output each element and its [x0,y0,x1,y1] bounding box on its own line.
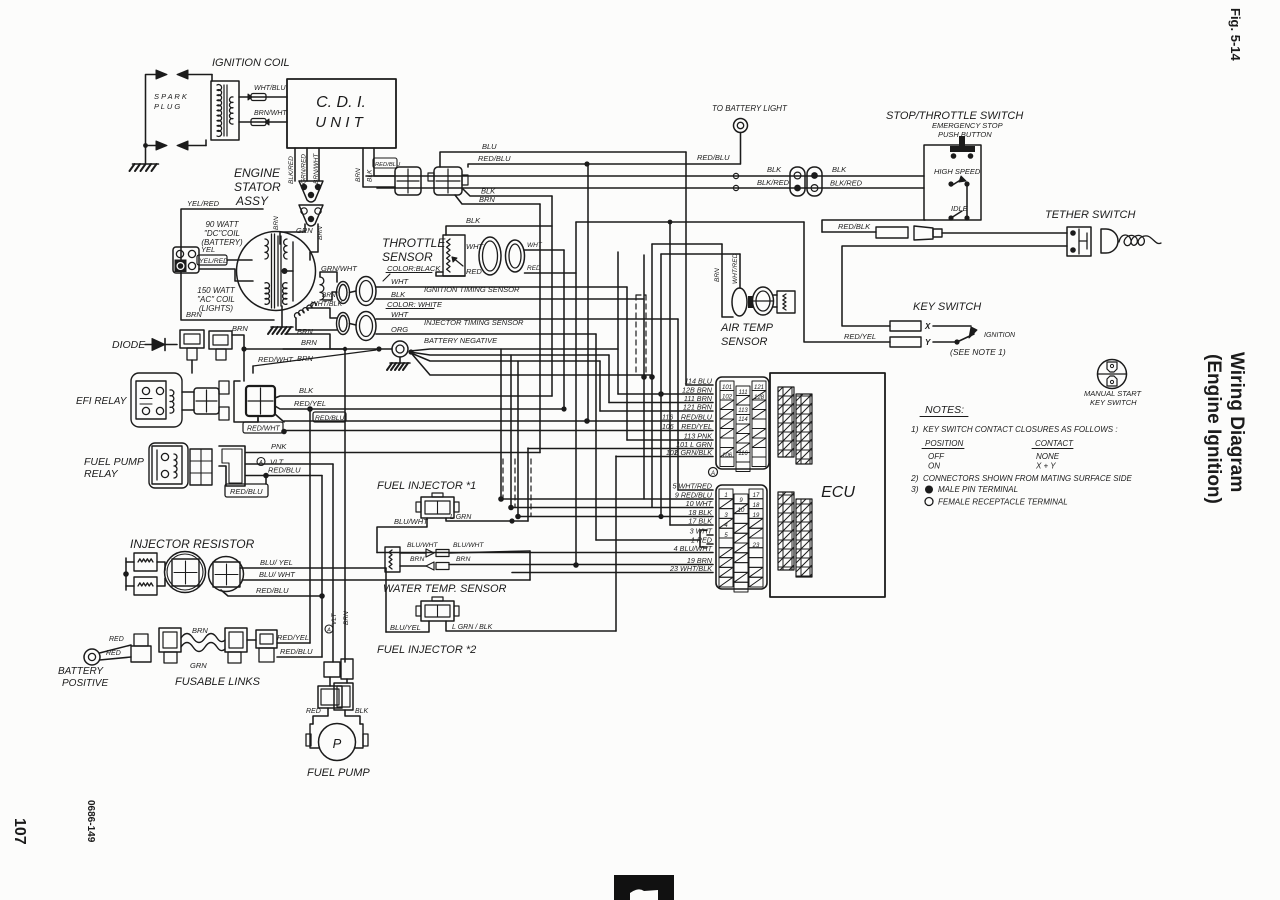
svg-text:AIR TEMP: AIR TEMP [720,322,774,334]
fuel pump relay coil [174,454,177,478]
svg-text:KEY SWITCH CONTACT CLOSURES: KEY SWITCH CONTACT CLOSURES AS FOLLOWS : [923,425,1118,434]
svg-text:BRN: BRN [456,556,470,563]
svg-text:102: 102 [666,450,678,457]
svg-text:RED/BLU: RED/BLU [280,647,313,656]
wire PNK [246,452,540,454]
throttle sensor pot box [443,235,465,276]
wire plug to tether switch [942,232,1067,234]
wire BRN riser x345 [344,349,346,662]
node pin junctions [658,391,664,397]
wire CDI BRN down right [363,148,395,187]
connector pill ignition pickup [337,282,350,304]
circled A symbol [709,468,718,477]
svg-text:TETHER SWITCH: TETHER SWITCH [1045,209,1135,221]
pickup coil WHT/BLK winding diagonal [293,301,316,318]
svg-text:0686-149: 0686-149 [85,800,96,843]
wire vertical x686 BLU [685,152,687,385]
connector tapered plug [914,226,933,240]
svg-text:S P A R K: S P A R K [154,92,188,101]
tether switch box [1067,227,1091,256]
wire WHT injector timing [376,318,678,320]
svg-text:RED: RED [306,708,321,715]
svg-text:OFF: OFF [928,452,945,461]
svg-text:FUEL INJECTOR *2: FUEL INJECTOR *2 [377,644,476,656]
wire RED/BLU EFI to pin116 [275,414,284,422]
svg-text:114 BLU: 114 BLU [685,377,713,386]
svg-text:RED/BLU: RED/BLU [681,413,713,422]
wire RED/YEL from EFI [275,406,564,409]
svg-text:P L U G: P L U G [154,102,180,111]
node fan origin [408,349,413,354]
wire ECU pin 18 BLK [518,516,713,518]
svg-text:BRN: BRN [273,216,280,230]
connector BRN/WHT inline [251,119,266,126]
wire vertical x670 [669,222,671,525]
svg-text:BRN: BRN [192,626,208,635]
svg-text:GRN: GRN [190,661,207,670]
svg-text:17: 17 [753,493,760,499]
svg-text:COLOR: WHITE: COLOR: WHITE [387,300,443,309]
wire ECU pin 9 RED/BLU [501,498,713,500]
svg-text:BLK: BLK [299,386,314,395]
svg-text:RED/WHT: RED/WHT [258,355,294,364]
wire RED/BLU branch down [265,476,267,485]
fuel pump relay box [152,446,182,484]
water temp connector arrows [400,552,426,554]
throttle connector pill 1 [479,237,501,275]
svg-text:U N I T: U N I T [315,114,364,131]
svg-text:BLU/ YEL: BLU/ YEL [260,558,293,567]
wire ECU pin 3 WHT [707,534,713,536]
svg-text:"DC"COIL: "DC"COIL [204,229,240,238]
wire CDI BLK down right [374,148,395,176]
key switch blade [957,334,974,342]
svg-text:BLU/YEL: BLU/YEL [390,623,421,632]
EFI relay coil [170,390,174,413]
wire RED/YEL riser [309,409,311,643]
wire fan line 3 [411,353,600,361]
wire fan line 2 [410,352,609,355]
fuel pump connector G [324,662,340,677]
wire BLK long to stop switch [366,175,924,177]
connector 4-circle stator [173,247,199,273]
svg-text:BLK: BLK [466,216,481,225]
wire injector1 BLU/WHT [377,518,427,553]
svg-text:RED/WHT: RED/WHT [247,426,280,433]
stator right winding bottom [283,283,287,305]
svg-text:106: 106 [662,424,674,431]
label RED/BLU boxed EFI [313,412,346,422]
wire RED/BLU bottom [277,656,322,658]
wire diode B to vertical [232,335,244,381]
water temp sensor box [385,547,400,572]
node resistor left [123,571,129,577]
throttle pot zigzag [447,239,450,272]
svg-text:INJECTOR RESISTOR: INJECTOR RESISTOR [130,537,255,551]
node RED/BLU branch [263,473,269,479]
svg-text:BRN/WHT: BRN/WHT [313,153,320,184]
wire BLK throttle top [446,226,552,235]
svg-text:BRN: BRN [322,292,336,299]
key switch X terminal [890,321,921,331]
wire switch internal [966,186,968,216]
wire spark plug left vertical [146,75,157,165]
svg-text:18: 18 [753,503,760,509]
svg-text:PNK: PNK [271,442,287,451]
wire air temp BRN horizontal [652,243,722,245]
wire VLT [246,463,333,465]
svg-text:17 BLK: 17 BLK [688,517,713,526]
node dashed ends [641,374,647,380]
svg-text:BRN: BRN [301,338,317,347]
wire ECU pin 12B BRN [618,393,713,395]
ignition coil T1 box [211,81,239,140]
svg-text:BLU/ WHT: BLU/ WHT [259,570,296,579]
svg-text:POSITION: POSITION [925,439,963,448]
svg-text:IGNITION: IGNITION [984,332,1016,339]
wire ORG injector timing [376,333,596,335]
svg-text:BRN: BRN [410,556,424,563]
wire YEL to stator [227,259,252,261]
svg-text:5 WHT/RED: 5 WHT/RED [672,482,712,491]
wire tether lower to key switch [842,246,1067,326]
wire water BLU/WHT [449,551,530,553]
svg-text:L GRN/BLK: L GRN/BLK [675,448,714,457]
label RED/BLU boxed near plug [373,158,397,168]
svg-text:MANUAL START: MANUAL START [1084,389,1143,398]
svg-text:L GRN / BLK: L GRN / BLK [452,624,493,631]
wire BLU/YEL riser x386 [385,568,387,632]
label RED/BLU boxed lower [225,484,268,497]
svg-text:KEY SWITCH: KEY SWITCH [913,301,981,313]
label RED/WHT boxed [243,422,283,433]
spark plug gap symbol top [156,70,167,79]
svg-text:KEY SWITCH: KEY SWITCH [1090,398,1137,407]
svg-text:YEL/RED: YEL/RED [187,199,220,208]
svg-text:128: 128 [754,395,765,401]
svg-text:RED/YEL: RED/YEL [277,633,309,642]
EFI relay box [136,381,166,419]
svg-text:BLK: BLK [355,708,369,715]
wire injector2 BLU/YEL [386,621,429,632]
connector pill pair on BLK lines [790,167,805,196]
svg-text:NOTES:: NOTES: [925,404,964,416]
wire vertical x501 [500,349,502,499]
wire BRN bottom from stator to V345 [283,348,345,350]
svg-text:150 WATT: 150 WATT [197,286,236,295]
svg-text:NONE: NONE [1036,452,1060,461]
wire pills to ovals [350,291,357,293]
svg-text:10: 10 [738,508,745,514]
svg-text:RED/YEL: RED/YEL [681,422,712,431]
node BRN junctions [241,346,246,351]
wire BLU [440,152,686,167]
svg-text:ECU: ECU [821,484,855,501]
wire ECU pin 111 BRN [609,402,713,404]
wire vertical x552 BLK [551,196,553,396]
wire vertical x609 bend [608,355,610,403]
wire triangle right BRN [310,224,318,260]
svg-text:STATOR: STATOR [234,180,281,194]
resistor box 2 [134,577,157,595]
battery connector [134,634,148,646]
wire RED/YEL bottom [277,642,310,644]
ignition coil primary winding [229,97,233,124]
svg-text:BLU/WHT: BLU/WHT [394,517,429,526]
manual start key switch symbol [1098,360,1127,389]
wire RED/BLU resistor [221,590,322,596]
wire injector2 L GRN/BLK [446,621,616,631]
connector WHT/BLU inline [251,94,266,101]
wire WHT ignition timing [376,286,627,288]
wire BLK from connector B [462,188,552,196]
key switch Y terminal [890,337,921,347]
ECU internal connector lower [778,492,794,570]
wire pump leads [313,708,328,724]
wire throttle box bottom [436,272,465,276]
wire y222 from center to key switch drop [576,221,804,223]
wire relay to connector [182,391,194,393]
svg-text:Wiring Diagram: Wiring Diagram [1226,352,1247,492]
wire vertical x618 bend [617,252,619,394]
svg-text:RELAY: RELAY [84,468,119,480]
bottom black box [614,875,674,900]
throttle pot wiper arrow [452,257,463,266]
svg-text:ENGINE: ENGINE [234,166,281,180]
fuel pump relay contacts [161,453,168,460]
wire coil to CDI BRN/WHT [239,121,287,123]
terminal circles on BLK pair [733,173,738,178]
wire vertical x678 WHT [677,319,679,490]
wire ECU pin 5 WHT/RED [678,489,713,491]
wire CDI BRN/WHT down [318,148,320,181]
svg-text:1: 1 [724,493,727,499]
wire ECU pin 17 BLK [670,524,713,526]
svg-text:RED/BLU: RED/BLU [478,154,511,163]
connector 4-pin square plug B [434,167,462,195]
wire G to H [329,677,331,686]
svg-text:19: 19 [753,513,760,519]
svg-text:BRN: BRN [714,268,721,282]
svg-text:121 BRN: 121 BRN [683,403,713,412]
wire vertical x616 L GRN/BLK riser [615,456,617,631]
svg-text:116: 116 [662,415,673,422]
stator left winding top [265,239,268,259]
wire ECU pin 1 RED [707,543,713,545]
svg-text:BLK/RED: BLK/RED [757,178,790,187]
wire BLU/YEL [240,567,386,569]
wire RED/BLU riser x322 [321,476,323,658]
svg-text:YEL: YEL [201,245,215,254]
ECU harness connector lower block [716,485,767,589]
wire BLK from EFI [275,396,552,398]
svg-text:BRN: BRN [317,226,324,240]
svg-text:SENSOR: SENSOR [721,336,768,348]
wire ECU pin 101 L GRN [528,448,713,450]
wire ECU pin L GRN/BLK [616,456,713,458]
connector diode B [209,331,232,349]
wire ECU pin 121 BRN [600,410,713,412]
svg-text:A: A [258,460,263,466]
svg-text:BLK/RED: BLK/RED [288,156,295,184]
svg-text:(Engine Ignition): (Engine Ignition) [1203,354,1224,504]
ground spark plug [133,163,159,165]
connector 3-pin female triangle lower [299,205,323,226]
svg-text:106: 106 [722,453,733,459]
svg-text:Fig. 5-14: Fig. 5-14 [1228,8,1243,62]
diode symbol [145,344,152,346]
wire Y contact [933,341,957,343]
stator left winding bottom [265,283,269,305]
spark plug gap symbol bottom [156,141,167,150]
svg-text:BLU: BLU [482,142,497,151]
fusable link E2 [225,628,247,652]
wire X contact [933,325,971,327]
air temp sensor pill [732,288,747,316]
wire vertical x576 RED [575,222,577,565]
svg-text:FUEL INJECTOR *1: FUEL INJECTOR *1 [377,480,476,492]
svg-text:FEMALE RECEPTACLE TERMINAL: FEMALE RECEPTACLE TERMINAL [938,498,1068,507]
wire coil to CDI WHT/BLU [239,96,287,98]
svg-text:102: 102 [722,395,733,401]
svg-text:TO BATTERY LIGHT: TO BATTERY LIGHT [712,104,788,113]
connector pill injector pickup [337,313,350,335]
wire vertical x518 [517,361,519,516]
svg-text:GRN/RED: GRN/RED [301,154,308,184]
fuel pump relay envelope [149,443,188,488]
wire fan line 1 [410,349,618,351]
wire air temp BRN vertical [722,244,733,317]
svg-text:BLK/RED: BLK/RED [830,179,863,188]
injector resistor connector circle 2 [209,557,244,592]
wire triangle to stator BRN [280,224,305,244]
svg-text:COLOR:BLACK: COLOR:BLACK [387,264,441,273]
svg-text:BRN: BRN [232,324,248,333]
bracket 3WHT 1RED [700,530,707,547]
wire vertical x528 L GRN riser [527,448,529,521]
node lower pin junctions [498,496,504,502]
wire vertical x511 [510,355,512,507]
svg-text:INJECTOR TIMING SENSOR: INJECTOR TIMING SENSOR [424,318,524,327]
wire CDI BLK/RED down [294,148,296,181]
svg-text:WHT: WHT [391,277,409,286]
wire plug to coil top [188,74,212,76]
svg-text:"AC" COIL: "AC" COIL [197,295,235,304]
fuel pump circle [319,724,356,761]
injector 1 connector [421,497,454,518]
svg-text:BLK: BLK [832,165,847,174]
svg-text:RED/YEL: RED/YEL [844,332,876,341]
stator boundary box [181,209,274,320]
svg-text:113: 113 [738,408,748,414]
stop switch box [924,145,981,220]
connector RED/BLK inline rect [876,227,908,238]
fuel line connector F [256,630,277,648]
svg-text:FUEL PUMP: FUEL PUMP [84,456,144,468]
svg-text:WHT: WHT [391,310,409,319]
tether coil spring [1119,235,1161,246]
wire ECU pin 10 WHT [511,507,713,509]
fuel pump connector H [318,686,342,708]
svg-text:BLU/WHT: BLU/WHT [453,542,484,549]
wire resistors to circle [157,562,165,570]
ECU box [770,373,885,597]
svg-text:BLK: BLK [391,290,406,299]
fuel pump relay connector grid [190,449,212,485]
svg-text:1): 1) [911,424,919,434]
fuel pump body [310,724,319,748]
svg-text:BATTERY: BATTERY [58,666,104,677]
svg-text:BRN: BRN [297,354,313,363]
svg-text:101: 101 [722,385,732,391]
wire BLK ignition timing [376,298,644,300]
idle contacts [948,215,953,220]
wire air temp WHT/RED horizontal [661,253,740,255]
EFI connector mid square [194,388,219,414]
wire battery light stem [740,133,742,165]
ignition timing sensor oval [356,277,376,306]
ground battery negative [399,357,401,363]
svg-text:ORG: ORG [391,325,408,334]
label circled A VLT [257,458,265,466]
EFI relay contacts [142,387,149,394]
node stator center [282,268,288,274]
wire vertical x588 RED/BLU [587,164,589,421]
wire CDI GRN/RED down [306,148,308,181]
tether cap D shape [1101,229,1118,253]
high speed contacts [948,181,953,186]
svg-text:10 WHT: 10 WHT [686,499,713,508]
svg-text:RED: RED [106,650,121,657]
node RED/YEL [307,406,313,412]
wire ECU pin 113 PNK [627,439,713,441]
svg-text:(SEE NOTE 1): (SEE NOTE 1) [950,347,1006,357]
svg-text:IGNITION COIL: IGNITION COIL [212,57,290,69]
wire ECU pin 23 WHT/BLK [512,572,713,574]
wire RED to bundle [525,272,577,274]
wire vertical x564 WHT [563,250,565,409]
svg-text:THROTTLE: THROTTLE [382,236,446,250]
EFI connector right square [246,386,275,416]
ECU internal connector upper [778,387,794,457]
svg-text:GRN: GRN [296,226,313,235]
svg-text:RED/BLK: RED/BLK [838,222,871,231]
wire ORG riser to 3WHT [595,334,597,540]
wire RED/BLU relay [246,475,322,477]
svg-text:A: A [710,471,715,477]
wire RED to connector [100,645,132,653]
svg-text:VLT: VLT [331,613,338,625]
svg-text:WHT/BLU: WHT/BLU [254,85,286,92]
wire vertical x652 BRN [651,244,653,507]
svg-text:RED: RED [109,636,124,643]
svg-text:L GRN: L GRN [450,514,472,521]
wire injector1 L GRN [446,518,528,521]
ground stator [271,326,293,328]
wire ECU pin RED/YEL [284,430,713,432]
wire plug to coil bottom [188,145,206,147]
wire vertical x540 BRN [539,204,541,453]
wire ECU pin 19 BRN [449,564,713,566]
air temp sensor black contact [748,296,753,308]
wire GRN coil to pill [320,272,337,282]
svg-text:SENSOR: SENSOR [382,250,433,264]
svg-text:116: 116 [738,451,748,457]
svg-text:121: 121 [754,385,764,391]
pickup coil GRN winding [320,277,324,300]
dashed vertical pair [635,295,637,376]
wire vertical to stop switch box [822,220,925,232]
